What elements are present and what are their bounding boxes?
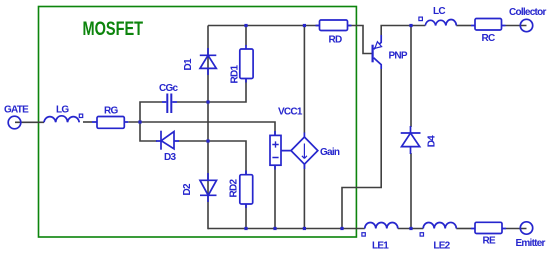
svg-text:LE1: LE1 bbox=[372, 241, 389, 252]
svg-text:Gain: Gain bbox=[320, 147, 340, 158]
svg-text:RC: RC bbox=[482, 33, 495, 44]
svg-text:D1: D1 bbox=[183, 58, 194, 70]
svg-text:RD: RD bbox=[329, 35, 342, 46]
svg-text:RE: RE bbox=[483, 236, 496, 247]
svg-text:LE2: LE2 bbox=[433, 241, 450, 252]
svg-text:CGc: CGc bbox=[159, 83, 179, 94]
svg-text:RD1: RD1 bbox=[230, 65, 241, 84]
svg-text:RG: RG bbox=[104, 106, 118, 117]
svg-text:D4: D4 bbox=[427, 135, 438, 147]
svg-text:D2: D2 bbox=[182, 183, 193, 195]
svg-text:GATE: GATE bbox=[4, 105, 29, 116]
svg-text:Collector: Collector bbox=[509, 7, 546, 18]
svg-text:VCC1: VCC1 bbox=[278, 107, 303, 118]
svg-text:D3: D3 bbox=[164, 152, 176, 163]
svg-text:MOSFET: MOSFET bbox=[83, 18, 144, 40]
svg-text:RD2: RD2 bbox=[229, 179, 240, 198]
svg-text:LG: LG bbox=[56, 105, 69, 116]
svg-text:LC: LC bbox=[433, 6, 445, 17]
svg-text:Emitter: Emitter bbox=[516, 238, 546, 249]
svg-text:PNP: PNP bbox=[389, 51, 408, 62]
